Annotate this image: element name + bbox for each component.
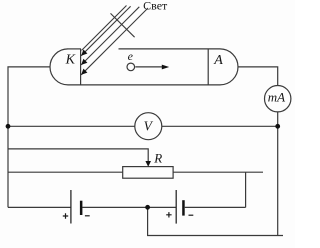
svg-text:A: A bbox=[213, 53, 223, 68]
svg-text:K: K bbox=[65, 53, 76, 68]
svg-text:mA: mA bbox=[268, 90, 285, 105]
svg-text:Свет: Свет bbox=[143, 0, 168, 13]
svg-text:e: e bbox=[128, 49, 134, 63]
svg-text:R: R bbox=[153, 151, 162, 166]
